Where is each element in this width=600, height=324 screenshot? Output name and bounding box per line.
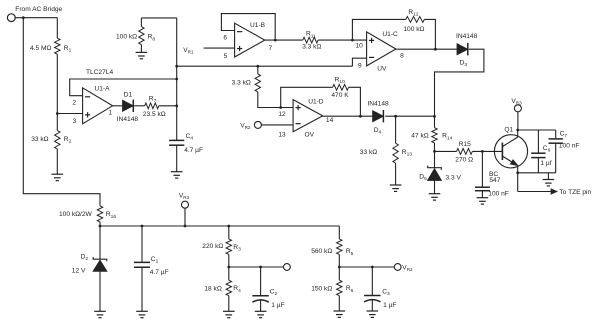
svg-text:IN4148: IN4148 <box>456 33 478 40</box>
R12 feedback wire left <box>352 19 405 40</box>
capacitor C3 <box>371 267 373 296</box>
svg-text:18 kΩ: 18 kΩ <box>204 285 221 292</box>
zener diode D2 <box>99 226 101 259</box>
diode D4 <box>373 111 384 122</box>
svg-text:UV: UV <box>377 66 387 73</box>
svg-text:150 kΩ: 150 kΩ <box>311 285 332 292</box>
svg-text:560 kΩ: 560 kΩ <box>311 248 332 255</box>
ground below base capacitor <box>477 197 489 199</box>
wire rail to U1-C pin 9 <box>352 58 366 66</box>
wire D4 to junction <box>385 115 434 117</box>
resistor R6 <box>338 267 340 280</box>
wire R15 to Q1 base <box>472 150 502 152</box>
wire VR1 to U1-B pin 5 <box>204 47 235 49</box>
ground below C3 <box>367 310 379 312</box>
svg-text:3: 3 <box>73 118 77 125</box>
node junction R10 drop <box>359 115 362 118</box>
resistor R10 <box>333 84 349 90</box>
wire R5 mid to VR2 terminal <box>339 266 394 268</box>
svg-text:U1-D: U1-D <box>308 98 324 105</box>
node junction VR3 <box>184 225 187 228</box>
ground below R2 <box>52 173 64 175</box>
node junction R14/R15/D5 <box>433 150 436 153</box>
svg-text:From AC Bridge: From AC Bridge <box>15 6 62 13</box>
terminal VR2 input <box>254 121 261 128</box>
wire VR3 to collector node <box>517 112 519 130</box>
terminal AC bridge input <box>7 14 15 22</box>
resistor R4 <box>228 267 230 280</box>
wire to U1-A pin 3 <box>57 113 82 115</box>
wire R3 mid to terminal <box>229 266 284 268</box>
terminal R3/R4 output <box>284 264 291 271</box>
svg-text:6: 6 <box>223 34 227 41</box>
U1-B feedback wire <box>221 14 275 40</box>
svg-text:IN4148: IN4148 <box>117 116 139 123</box>
capacitor C1 <box>141 226 143 262</box>
diode D1 <box>123 100 134 111</box>
op-amp U1-A <box>83 88 113 124</box>
ground below R13 <box>390 184 402 186</box>
svg-text:13: 13 <box>278 131 286 138</box>
svg-text:4.7 µF: 4.7 µF <box>150 269 169 276</box>
resistor 3.3k to U1-D pin 12 <box>257 66 259 74</box>
svg-text:33 kΩ: 33 kΩ <box>31 136 48 143</box>
svg-text:TLC27L4: TLC27L4 <box>86 69 113 76</box>
node junction rail <box>175 65 178 68</box>
wire D1 to R7 <box>134 105 145 107</box>
R10 feedback wire right <box>349 87 361 116</box>
svg-text:3.3 kΩ: 3.3 kΩ <box>232 79 251 86</box>
node junction R7 output <box>175 104 178 107</box>
svg-text:12: 12 <box>278 111 286 118</box>
svg-text:7: 7 <box>268 45 272 52</box>
svg-text:220 kΩ: 220 kΩ <box>202 243 223 250</box>
svg-text:47 kΩ: 47 kΩ <box>411 132 428 139</box>
svg-text:Q1: Q1 <box>504 127 513 134</box>
diode D3 <box>457 44 468 55</box>
node rail wire <box>177 65 353 67</box>
R10 feedback wire left <box>281 87 333 107</box>
zener diode D5 <box>434 151 436 167</box>
ground below R8 <box>136 51 148 53</box>
ground below D2 <box>94 310 106 312</box>
svg-text:1 µF: 1 µF <box>383 302 396 309</box>
node junction base capacitor <box>481 150 484 153</box>
svg-text:4.7 µF: 4.7 µF <box>184 147 203 154</box>
ground below R6 <box>334 310 346 312</box>
ground below C6 C7 <box>547 173 549 180</box>
wire Q1 emitter <box>517 166 519 192</box>
svg-text:1: 1 <box>108 110 112 117</box>
node junction R1/R2 to pin3 <box>56 112 59 115</box>
svg-text:To TZE pin: To TZE pin <box>559 189 591 196</box>
wire U1-D output <box>323 115 373 117</box>
ground below C4 <box>171 171 183 173</box>
capacitor 100nF at base <box>481 151 483 187</box>
svg-text:3.3 kΩ: 3.3 kΩ <box>302 44 321 51</box>
wire U1-B output to R11 <box>265 39 303 41</box>
wire collector node to C7 <box>518 129 556 131</box>
svg-text:100 kΩ: 100 kΩ <box>116 34 137 41</box>
bottom rail wire <box>100 225 339 227</box>
node junction R5/R6 <box>338 266 341 269</box>
resistor R8 <box>140 18 142 27</box>
wire R11 to U1-C pin 10 <box>318 39 367 41</box>
svg-text:4.5 MΩ: 4.5 MΩ <box>30 45 51 52</box>
wire Q1 collector <box>517 130 519 137</box>
svg-text:12 V: 12 V <box>72 267 86 274</box>
svg-text:14: 14 <box>326 117 334 124</box>
wire R8 top to main node column <box>141 17 176 19</box>
node junction collector <box>516 129 519 132</box>
terminal VR2 output <box>394 264 401 271</box>
op-amp U1-C <box>367 32 396 66</box>
node junction emitter <box>516 171 519 174</box>
wire to TZE pin <box>518 191 552 193</box>
node junction U1-B output <box>274 39 277 42</box>
svg-text:3.3 V: 3.3 V <box>446 175 462 182</box>
svg-text:10: 10 <box>356 43 364 50</box>
wire U1-C output <box>396 48 457 50</box>
capacitor C4 <box>169 139 184 141</box>
svg-text:U1-B: U1-B <box>250 22 266 29</box>
node junction pin 10 <box>351 39 354 42</box>
ground below C1 <box>136 310 148 312</box>
wire VR2 to pin 13 <box>261 124 293 126</box>
capacitor C6 <box>537 130 539 153</box>
wire main node column <box>176 18 178 140</box>
resistor R14 <box>434 116 436 127</box>
wire from terminal to R1 top <box>15 17 57 19</box>
node junction R3 <box>227 225 230 228</box>
svg-text:470 K: 470 K <box>331 92 349 99</box>
node junction pin 12 <box>279 106 282 109</box>
wire R14 to R15 <box>435 150 457 152</box>
capacitor C2 <box>260 267 262 296</box>
wire R7 to node <box>159 105 177 107</box>
svg-text:100 kΩ: 100 kΩ <box>403 26 424 33</box>
node junction at left rail <box>22 16 25 19</box>
wire U1-A output <box>113 105 123 107</box>
svg-text:OV: OV <box>305 131 315 138</box>
node junction C1 <box>141 225 144 228</box>
resistor R1 <box>56 18 58 39</box>
svg-text:U1-A: U1-A <box>95 86 111 93</box>
node junction U1-C output <box>434 48 437 51</box>
node junction C3 <box>371 266 374 269</box>
svg-text:R15: R15 <box>459 141 471 148</box>
svg-text:23.5 kΩ: 23.5 kΩ <box>143 111 166 118</box>
resistor R5 <box>338 226 340 239</box>
ground below D5 <box>429 193 441 195</box>
resistor R7 <box>145 103 159 109</box>
transistor Q1 <box>494 135 527 168</box>
svg-text:U1-C: U1-C <box>382 31 398 38</box>
node junction R13 <box>394 115 397 118</box>
terminal VR3 top <box>514 105 521 112</box>
resistor R15 <box>457 149 473 155</box>
node junction C2 <box>259 266 262 269</box>
op-amp U1-D <box>293 100 323 132</box>
svg-text:IN4148: IN4148 <box>367 100 389 107</box>
node junction feedback <box>175 78 178 81</box>
svg-text:547: 547 <box>489 177 500 184</box>
node junction R16 bottom <box>99 225 102 228</box>
resistor R11 <box>303 37 318 43</box>
svg-text:100 nF: 100 nF <box>559 142 580 149</box>
ground below C2 <box>255 310 267 312</box>
R12 feedback wire right <box>424 19 435 49</box>
resistor R3 <box>228 226 230 239</box>
wire emitter ground rail <box>518 172 556 174</box>
node rail junction 3.3k <box>256 65 259 68</box>
svg-text:8: 8 <box>400 53 404 60</box>
svg-text:5: 5 <box>224 53 228 60</box>
wire left rail down to R16 <box>23 18 100 206</box>
ground below R4 <box>223 310 235 312</box>
svg-text:9: 9 <box>358 63 362 70</box>
capacitor C7 <box>555 130 557 139</box>
svg-text:33 kΩ: 33 kΩ <box>360 149 377 156</box>
resistor R13 <box>395 116 397 143</box>
node junction D3/D4/R14 <box>433 115 436 118</box>
wire feedback to U1-A pin 2 <box>70 79 177 96</box>
wire D3 return path <box>435 49 484 116</box>
terminal VR3 bottom <box>182 201 189 208</box>
resistor R2 <box>55 131 60 150</box>
svg-text:1 µF: 1 µF <box>271 302 284 309</box>
svg-text:2: 2 <box>72 99 76 106</box>
resistor R16 <box>97 206 102 222</box>
svg-text:100 nF: 100 nF <box>488 190 509 197</box>
resistor R12 <box>406 17 425 23</box>
node junction R3/R4 <box>227 266 230 269</box>
svg-text:100 kΩ/2W: 100 kΩ/2W <box>59 211 93 218</box>
svg-text:270 Ω: 270 Ω <box>455 157 473 164</box>
wire VR3 to rail <box>184 208 186 226</box>
op-amp U1-B <box>235 23 265 57</box>
svg-text:D1: D1 <box>124 92 133 99</box>
svg-text:1 µf: 1 µf <box>540 160 551 167</box>
